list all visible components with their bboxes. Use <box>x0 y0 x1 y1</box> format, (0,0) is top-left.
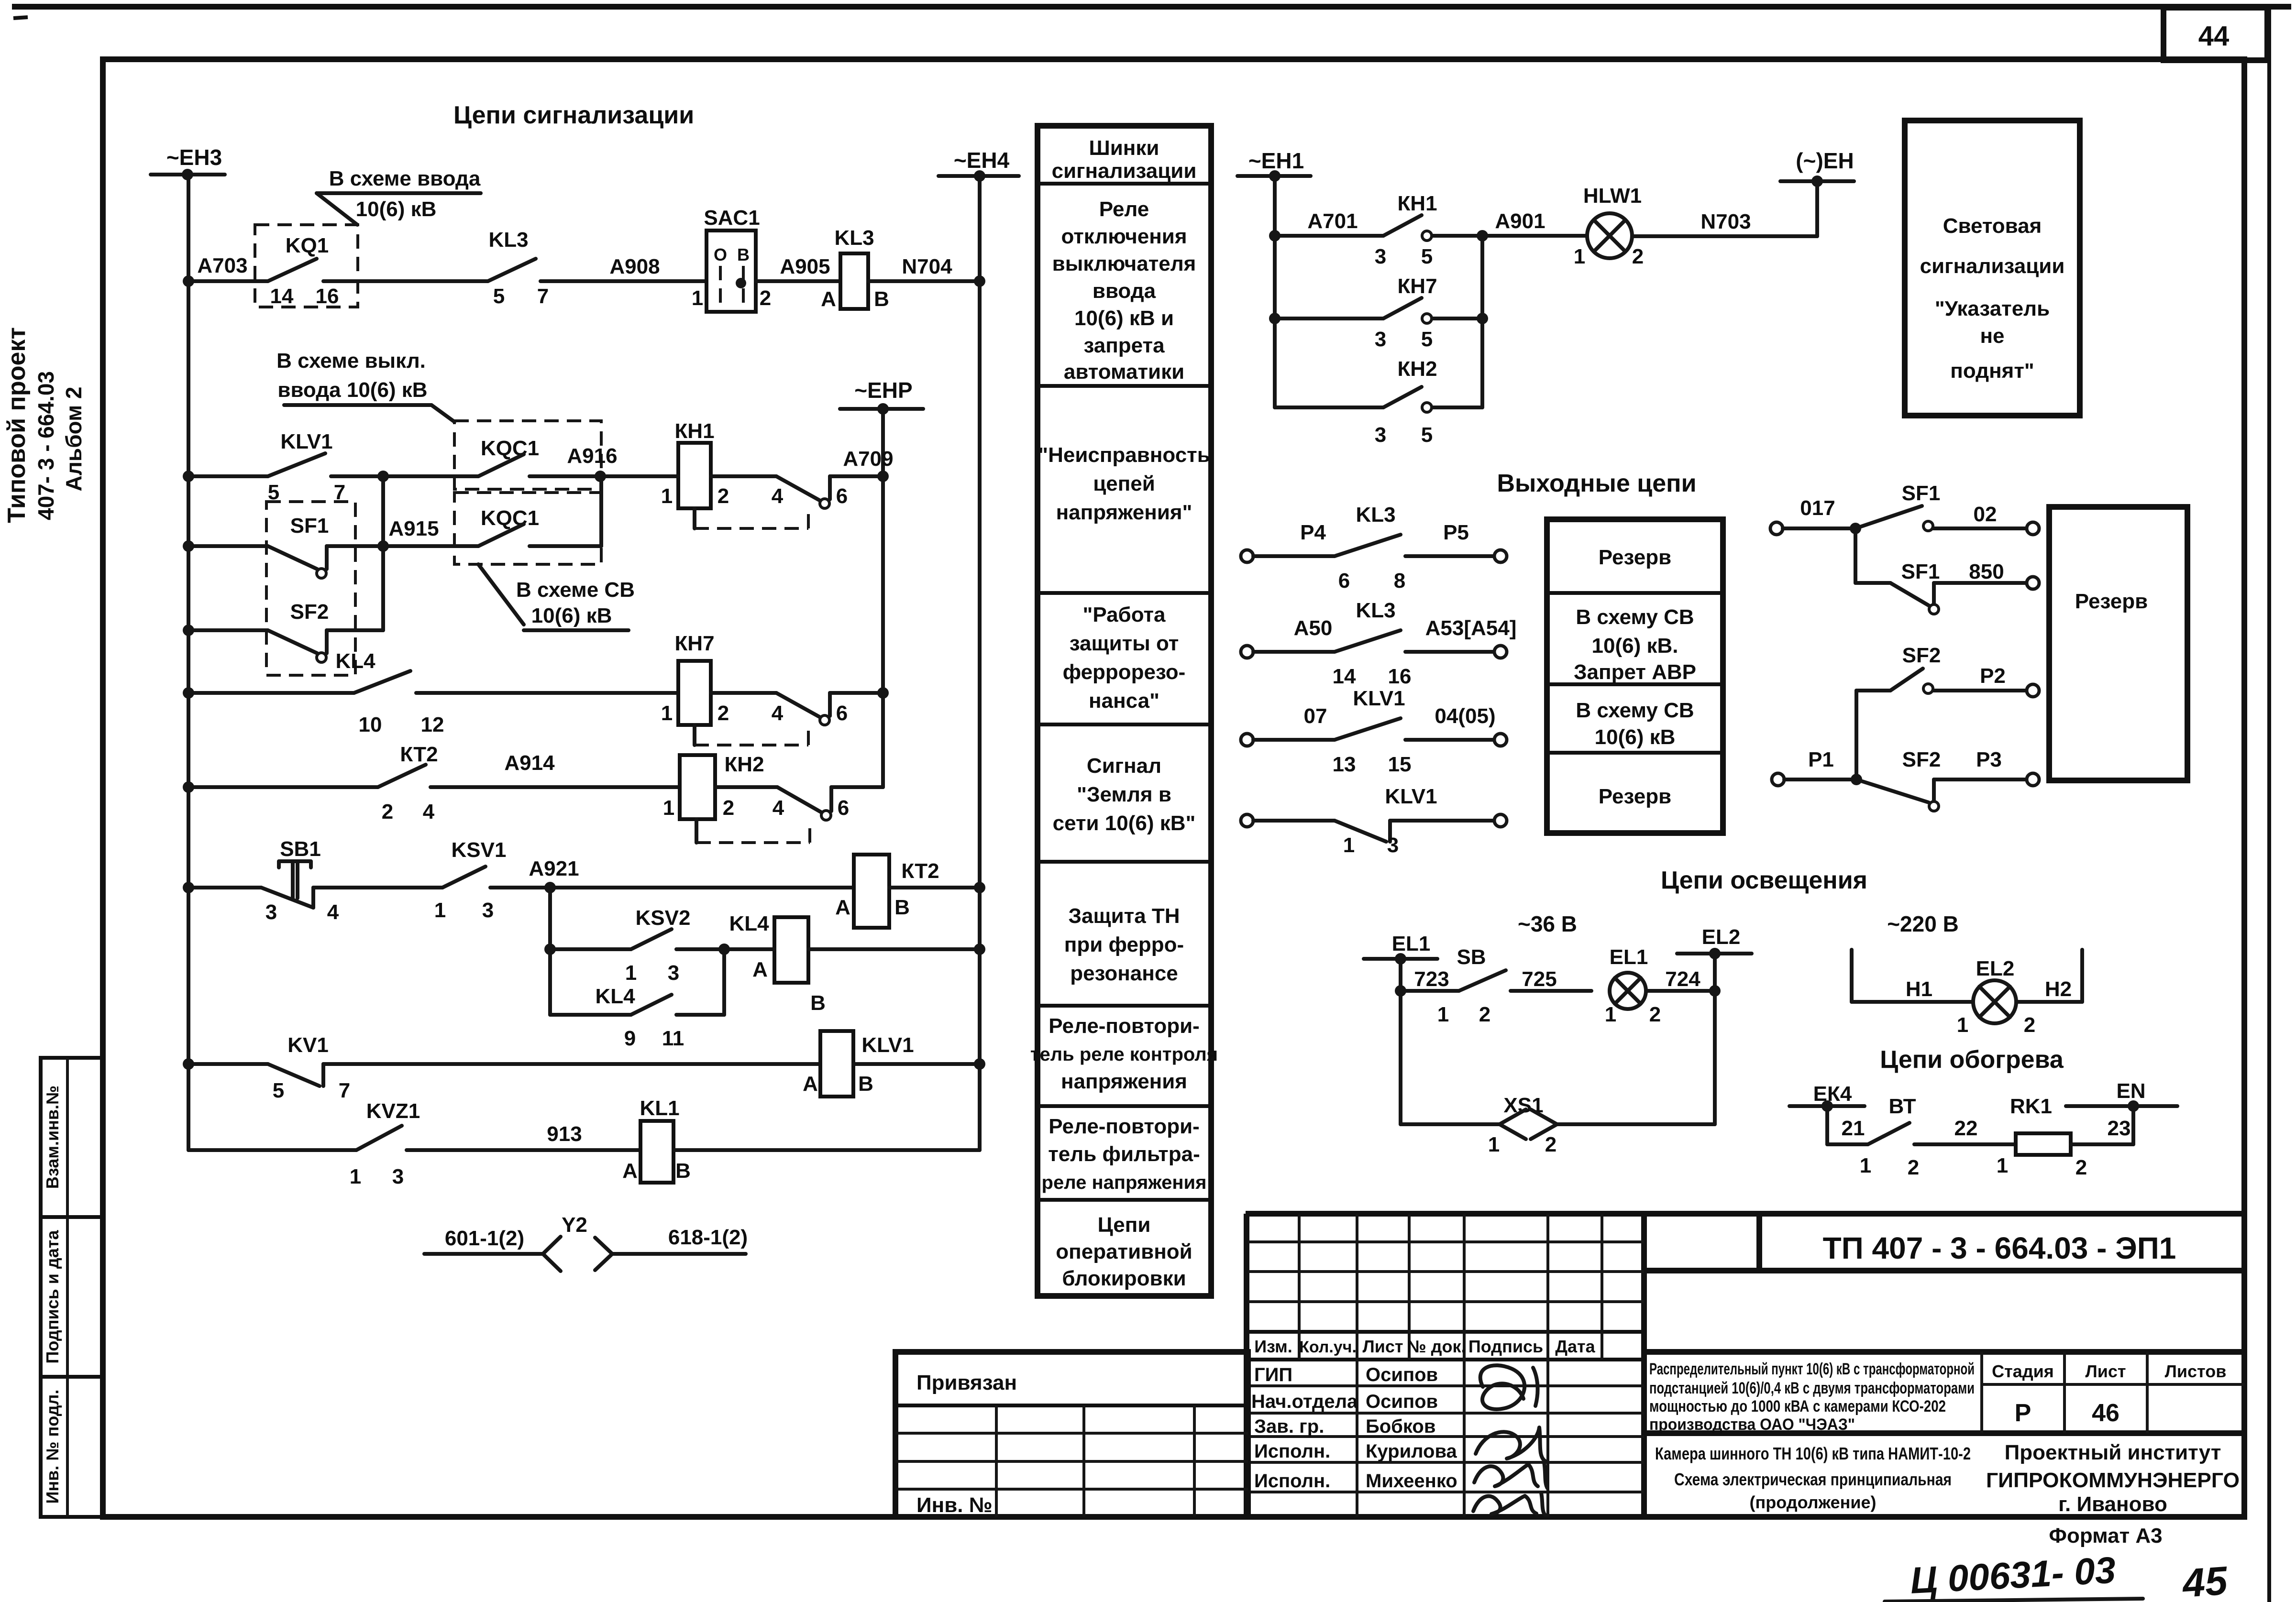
svg-text:3: 3 <box>1375 328 1386 351</box>
svg-text:2: 2 <box>1632 245 1644 268</box>
svg-text:8: 8 <box>1394 569 1405 593</box>
contact KH7 (4-6) <box>695 693 883 745</box>
node EK4 <box>1789 1082 1865 1144</box>
node ~EH1 <box>1237 148 1311 182</box>
svg-text:ввода 10(6) кВ: ввода 10(6) кВ <box>277 378 427 402</box>
svg-text:10(6) кВ: 10(6) кВ <box>1595 725 1676 749</box>
contact KSV1 (1-3) <box>434 838 550 922</box>
pushbutton SB1 (3-4) <box>261 837 339 924</box>
margin box Podpis i data <box>41 1217 103 1377</box>
cell V skhemu SV Zapret AVR <box>1574 605 1696 684</box>
relay coil KT2 <box>835 855 980 928</box>
relay coil KL1 <box>622 1097 980 1183</box>
svg-text:подстанцией 10(6)/0,4 кВ с дву: подстанцией 10(6)/0,4 кВ с двумя трансфо… <box>1649 1379 1975 1397</box>
output destination table <box>1547 519 1723 833</box>
svg-text:10: 10 <box>359 713 382 736</box>
stadia list listov header <box>1982 1352 2244 1433</box>
wire 725 <box>1522 967 1556 991</box>
svg-text:KL3: KL3 <box>1356 599 1395 622</box>
relay coil KH7 <box>661 632 776 725</box>
svg-text:(~)ЕН: (~)ЕН <box>1796 148 1854 173</box>
svg-text:Стадия: Стадия <box>1992 1361 2054 1381</box>
contact KSV2 (1-3) <box>550 906 730 985</box>
wire A921 vertical <box>544 888 556 1015</box>
svg-text:Н1: Н1 <box>1906 977 1932 1001</box>
svg-text:2: 2 <box>1908 1156 1919 1179</box>
svg-text:А914: А914 <box>504 751 555 775</box>
wire row SB1 left <box>188 886 261 889</box>
svg-text:46: 46 <box>2092 1399 2119 1427</box>
svg-text:KSV2: KSV2 <box>636 906 691 930</box>
svg-text:Формат А3: Формат А3 <box>2049 1524 2162 1547</box>
svg-text:сигнализации: сигнализации <box>1052 159 1197 183</box>
svg-text:SF2: SF2 <box>290 600 329 624</box>
svg-text:оперативной: оперативной <box>1056 1240 1192 1263</box>
svg-text:Выходные цепи: Выходные цепи <box>1497 470 1696 497</box>
svg-text:KQ1: KQ1 <box>286 234 329 257</box>
switch SB (1-2) <box>1437 945 1591 1026</box>
svg-text:А: А <box>622 1159 638 1183</box>
svg-text:А703: А703 <box>197 254 247 277</box>
svg-text:тель фильтра-: тель фильтра- <box>1048 1142 1200 1166</box>
handwritten inventory number <box>1885 1549 2230 1602</box>
label ~36 V <box>1518 911 1577 936</box>
signature row Nach otdela Osipov <box>1251 1391 1438 1412</box>
SECTION: lighting + heating <box>1364 867 2177 1179</box>
svg-text:КТ2: КТ2 <box>400 743 438 766</box>
svg-text:ГИПРОКОММУНЭНЕРГО: ГИПРОКОММУНЭНЕРГО <box>1986 1469 2240 1492</box>
svg-text:ТП 407 - 3 - 664.03 - ЭП1: ТП 407 - 3 - 664.03 - ЭП1 <box>1823 1231 2176 1265</box>
svg-text:Типовой проект: Типовой проект <box>3 327 31 523</box>
wire 724 <box>1646 967 1721 997</box>
svg-text:Р2: Р2 <box>1980 664 2006 688</box>
wire row KVZ1 left <box>188 1148 356 1152</box>
cell V skhemu SV <box>1576 699 1694 749</box>
handwritten signature Osipov <box>1480 1365 1538 1409</box>
side caption Tipovoy proekt <box>3 327 86 523</box>
svg-text:Взам.инв.№: Взам.инв.№ <box>43 1086 62 1189</box>
svg-text:EL2: EL2 <box>1976 957 2015 980</box>
table row Rabota zashchity <box>1063 603 1186 713</box>
lamp EL1 <box>1605 945 1661 1026</box>
svg-text:Михеенко: Михеенко <box>1366 1470 1457 1492</box>
signature row Ispoln Mikheenko <box>1254 1470 1457 1492</box>
svg-text:407- 3 - 664.03: 407- 3 - 664.03 <box>33 371 58 520</box>
svg-text:2: 2 <box>1479 1003 1490 1026</box>
svg-text:мощностью до 1000 кВА с камера: мощностью до 1000 кВА с камерами КСО-202 <box>1649 1397 1946 1415</box>
svg-text:Камера шинного ТН 10(6) кВ тип: Камера шинного ТН 10(6) кВ типа НАМИТ-10… <box>1655 1444 1971 1463</box>
wire A921 to KT2 coil <box>550 886 854 889</box>
svg-text:Зав. гр.: Зав. гр. <box>1254 1416 1324 1437</box>
svg-text:4: 4 <box>773 796 784 820</box>
svg-text:Световая: Световая <box>1943 214 2042 238</box>
svg-text:Курилова: Курилова <box>1366 1441 1457 1462</box>
svg-text:KL3: KL3 <box>1356 503 1395 527</box>
table row Rele-povtoritel filtra <box>1042 1115 1207 1193</box>
contact SF1 <box>268 546 383 578</box>
svg-text:А908: А908 <box>609 255 660 278</box>
svg-text:KL1: KL1 <box>640 1097 679 1120</box>
node ~EH3 <box>151 145 225 180</box>
svg-text:КН2: КН2 <box>1397 357 1437 381</box>
svg-text:850: 850 <box>1969 560 2004 583</box>
svg-text:2: 2 <box>717 484 729 508</box>
svg-text:№ док.: № док. <box>1407 1337 1466 1356</box>
page number box 44 <box>2164 8 2267 60</box>
sheet top border <box>12 7 2291 18</box>
svg-text:10(6) кВ и: 10(6) кВ и <box>1074 307 1174 330</box>
label ~220 V <box>1887 911 1959 936</box>
svg-text:А50: А50 <box>1294 616 1333 640</box>
wire label A914 <box>504 751 555 775</box>
contact KV1 (5-7) <box>268 1033 820 1102</box>
contact KL4 (10-12) <box>335 649 678 736</box>
handwritten signature Mikheenko <box>1473 1493 1545 1515</box>
relay coil KLV1 <box>803 1031 980 1097</box>
svg-text:EN: EN <box>2116 1079 2145 1103</box>
svg-text:КН2: КН2 <box>724 753 764 776</box>
svg-text:В: В <box>894 896 910 919</box>
svg-text:Распределительный пункт 10(6): Распределительный пункт 10(6) кВ с транс… <box>1649 1360 1975 1378</box>
breaker SF2 row P3 <box>1772 748 2039 811</box>
contact KQ1 (14-16) in dashed box <box>255 225 358 308</box>
svg-text:напряжения": напряжения" <box>1056 501 1192 524</box>
svg-text:23: 23 <box>2108 1117 2131 1140</box>
svg-text:SF1: SF1 <box>1901 560 1940 583</box>
output row 2 contact KL3 (14-16) A50 A53[A54] <box>1241 599 1516 688</box>
svg-text:7: 7 <box>339 1079 350 1102</box>
svg-text:2: 2 <box>2024 1013 2035 1037</box>
signature row Ispoln Kurilova <box>1254 1441 1457 1462</box>
wire EH1 vertical <box>1269 176 1280 407</box>
svg-text:1: 1 <box>1488 1133 1500 1156</box>
svg-text:феррорезо-: феррорезо- <box>1063 660 1186 684</box>
breaker SF2 row P2 <box>1856 644 2039 779</box>
svg-text:В схеме СВ: В схеме СВ <box>516 578 635 602</box>
svg-text:Бобков: Бобков <box>1366 1416 1435 1437</box>
svg-text:12: 12 <box>421 713 444 736</box>
signal bus description table <box>1038 126 1211 1296</box>
svg-text:16: 16 <box>316 285 339 308</box>
SECTION: left signalling circuits <box>151 101 1019 1271</box>
wire A901 to lamp <box>1482 234 1587 238</box>
svg-text:6: 6 <box>838 796 849 820</box>
output row 1 contact KL3 (6-8) P4 P5 <box>1241 503 1507 593</box>
svg-text:В схеме выкл.: В схеме выкл. <box>276 349 426 373</box>
svg-text:6: 6 <box>836 702 848 725</box>
svg-text:6: 6 <box>1338 569 1350 593</box>
svg-text:ввода: ввода <box>1093 279 1156 303</box>
svg-text:1: 1 <box>661 484 673 508</box>
svg-text:Цепи: Цепи <box>1098 1213 1151 1237</box>
svg-text:Запрет АВР: Запрет АВР <box>1574 660 1696 684</box>
svg-text:45: 45 <box>2180 1558 2230 1602</box>
signature rows grid <box>1248 1360 1644 1517</box>
svg-text:724: 724 <box>1665 967 1700 991</box>
SECTION: title block <box>895 1214 2244 1602</box>
svg-text:запрета: запрета <box>1083 334 1165 357</box>
svg-text:КН7: КН7 <box>674 632 714 655</box>
breaker contacts SF1 SF2 dashed box <box>266 502 355 675</box>
svg-text:KV1: KV1 <box>287 1033 329 1057</box>
svg-text:SAC1: SAC1 <box>704 206 760 230</box>
svg-text:SF2: SF2 <box>1902 748 1941 771</box>
svg-text:5: 5 <box>1421 328 1433 351</box>
svg-text:22: 22 <box>1954 1117 1978 1140</box>
svg-text:поднят": поднят" <box>1950 359 2034 383</box>
table row Cepi operativnoy blokirovki <box>1056 1213 1192 1290</box>
svg-text:В: В <box>675 1159 691 1183</box>
svg-text:KL4: KL4 <box>729 912 769 935</box>
contact KLV1 (5-7) <box>268 430 383 504</box>
contact KH2 (3-5) <box>1375 357 1482 447</box>
svg-text:напряжения: напряжения <box>1061 1070 1187 1093</box>
svg-text:SB: SB <box>1457 945 1486 969</box>
svg-text:6: 6 <box>836 484 848 508</box>
svg-text:Нач.отдела: Нач.отдела <box>1251 1391 1358 1412</box>
svg-text:4: 4 <box>772 702 784 725</box>
wire 22 <box>1954 1117 1978 1140</box>
svg-text:А: А <box>835 896 850 919</box>
box Svetovaya signalizaciya <box>1905 121 2080 416</box>
svg-text:KLV1: KLV1 <box>1385 785 1437 808</box>
contact KQC1 lower in dashed box <box>383 476 601 564</box>
svg-text:Р5: Р5 <box>1443 521 1469 544</box>
svg-text:KL4: KL4 <box>595 985 635 1008</box>
svg-text:А905: А905 <box>780 255 830 278</box>
wire KH7 row <box>1275 317 1383 320</box>
output row 4 contact KLV1 (1-3) <box>1241 785 1507 857</box>
svg-text:N704: N704 <box>902 255 952 278</box>
svg-text:при ферро-: при ферро- <box>1064 933 1184 956</box>
svg-text:В: В <box>810 991 826 1015</box>
svg-text:Цепи сигнализации: Цепи сигнализации <box>453 101 694 129</box>
svg-text:Инв. № подл.: Инв. № подл. <box>43 1390 62 1504</box>
svg-text:блокировки: блокировки <box>1062 1267 1186 1290</box>
svg-text:автоматики: автоматики <box>1064 360 1184 384</box>
svg-text:А921: А921 <box>529 857 579 880</box>
relay coil KL4 <box>724 912 980 1015</box>
node EL1 <box>1364 932 1437 997</box>
svg-text:KL3: KL3 <box>834 226 874 250</box>
contact SF2 <box>268 630 383 662</box>
svg-text:Р4: Р4 <box>1300 521 1326 544</box>
node label A703 <box>197 254 247 277</box>
svg-text:1: 1 <box>1343 834 1355 857</box>
contact KL3 (5-7) <box>488 228 549 308</box>
svg-text:Подпись: Подпись <box>1468 1337 1543 1356</box>
contact KH1 (3-5) <box>1375 192 1482 268</box>
document number box TP 407-3-664.03-EP1 <box>1759 1214 2176 1271</box>
note V skheme vvoda 10(6) kV <box>317 167 481 225</box>
svg-text:EL2: EL2 <box>1702 925 1741 949</box>
svg-text:В схему СВ: В схему СВ <box>1576 699 1694 722</box>
svg-text:04(05): 04(05) <box>1435 704 1495 728</box>
svg-text:В: В <box>737 245 750 264</box>
note V skheme vykl vvoda 10(6) kV <box>276 349 454 422</box>
svg-text:~36 В: ~36 В <box>1518 911 1577 936</box>
svg-text:КН1: КН1 <box>674 419 714 443</box>
node A901 <box>1477 209 1545 407</box>
node ~EHP <box>840 378 923 415</box>
svg-text:Y2: Y2 <box>562 1213 587 1237</box>
svg-text:КН7: КН7 <box>1397 274 1437 298</box>
contact BT (1-2) <box>1827 1095 2016 1179</box>
wire EHP vertical bus <box>877 409 889 787</box>
svg-text:601-1(2): 601-1(2) <box>445 1227 524 1250</box>
svg-text:А: А <box>821 287 836 311</box>
node label A915 <box>388 517 439 540</box>
svg-text:Реле-повтори-: Реле-повтори- <box>1049 1014 1200 1038</box>
wire EH4 vertical bus <box>978 176 982 1150</box>
wire 23 <box>2071 1106 2133 1144</box>
contact KQC1 upper in dashed box <box>383 421 601 489</box>
svg-text:13: 13 <box>1333 753 1356 776</box>
title Cepi obogreva <box>1880 1046 2064 1074</box>
SECTION: right top lamp circuit <box>1237 121 2080 447</box>
svg-text:В: В <box>858 1072 873 1096</box>
contact KVZ1 (1-3) <box>350 1099 640 1188</box>
svg-text:реле напряжения: реле напряжения <box>1042 1172 1207 1193</box>
cell Rezerv 2 <box>1599 785 1671 808</box>
contact KL4 (9-11) <box>550 949 724 1050</box>
title block outline <box>1246 1214 2244 1517</box>
node EL2 <box>1677 925 1752 991</box>
svg-text:"Работа: "Работа <box>1082 603 1166 626</box>
svg-text:Изм.: Изм. <box>1254 1337 1292 1356</box>
svg-text:А: А <box>752 958 768 981</box>
svg-text:3: 3 <box>265 900 277 924</box>
wire A701 <box>1275 209 1383 236</box>
table row Neispravnost cepey napryazheniya <box>1038 443 1210 524</box>
svg-text:А916: А916 <box>567 444 617 468</box>
wire XS1 loop <box>1401 991 1715 1124</box>
project description cell <box>1649 1360 1975 1434</box>
handwritten signature Bobkov <box>1476 1427 1545 1461</box>
title Cepi osveshcheniya <box>1661 867 1867 894</box>
svg-text:А: А <box>803 1072 818 1096</box>
revision grid upper rows <box>1248 1214 1644 1360</box>
svg-text:Реле: Реле <box>1099 198 1149 221</box>
wire A908 <box>541 255 706 281</box>
svg-text:EL1: EL1 <box>1392 932 1431 955</box>
svg-text:1: 1 <box>1605 1003 1616 1026</box>
revision header row labels <box>1254 1337 1595 1356</box>
svg-text:В схеме ввода: В схеме ввода <box>329 167 481 190</box>
breaker SF1 row 850 <box>1855 528 2039 614</box>
contact KH7 (3-5) <box>1375 274 1488 351</box>
wire row A703 middle <box>358 279 488 283</box>
svg-text:ВТ: ВТ <box>1889 1095 1916 1118</box>
svg-text:KQC1: KQC1 <box>481 506 539 530</box>
svg-text:Альбом 2: Альбом 2 <box>61 386 86 491</box>
cell Rezerv 1 <box>1599 546 1671 569</box>
junction A915 bus vertical <box>377 471 389 630</box>
svg-text:725: 725 <box>1522 967 1556 991</box>
svg-text:производства ОАО "ЧЭАЗ": производства ОАО "ЧЭАЗ" <box>1649 1415 1855 1434</box>
table row Rele-povtoritel rele kontrolya <box>1030 1014 1218 1093</box>
svg-text:3: 3 <box>668 961 679 985</box>
svg-text:KLV1: KLV1 <box>861 1033 914 1057</box>
relay coil KH1 <box>600 419 776 508</box>
output row 3 contact KLV1 (13-15) 07 04(05) <box>1241 687 1507 776</box>
junction dots on left bus <box>183 275 194 1070</box>
svg-text:44: 44 <box>2198 21 2230 52</box>
node label A709 <box>843 447 893 471</box>
contact KT2 (2-4) <box>378 743 680 823</box>
svg-text:Кол.уч.: Кол.уч. <box>1299 1338 1357 1356</box>
svg-text:выключателя: выключателя <box>1052 252 1196 275</box>
svg-text:ГИП: ГИП <box>1254 1364 1292 1385</box>
svg-text:KSV1: KSV1 <box>452 838 507 862</box>
note V skheme SV 10(6) kV <box>478 564 635 630</box>
svg-text:SF2: SF2 <box>1902 644 1941 667</box>
svg-text:3: 3 <box>1375 245 1386 268</box>
contact KH1 (4-6) <box>695 476 883 528</box>
svg-text:Исполн.: Исполн. <box>1254 1441 1330 1462</box>
svg-text:Лист: Лист <box>1362 1337 1403 1356</box>
wire row KL4 left <box>188 691 354 695</box>
wire KH2 row <box>1275 406 1383 409</box>
svg-text:4: 4 <box>423 800 435 823</box>
svg-text:618-1(2): 618-1(2) <box>668 1226 748 1249</box>
svg-text:Осипов: Осипов <box>1366 1391 1438 1412</box>
sheet right border <box>2267 7 2271 1602</box>
svg-text:14: 14 <box>1333 665 1356 688</box>
connector Y2 <box>424 1213 748 1271</box>
svg-text:В: В <box>874 287 889 311</box>
svg-text:1: 1 <box>625 961 637 985</box>
table row Zashchita TN <box>1064 904 1184 985</box>
svg-text:Р3: Р3 <box>1976 748 2002 771</box>
signature row Zav gr Bobkov <box>1254 1416 1435 1437</box>
svg-text:EL1: EL1 <box>1610 945 1648 969</box>
table row Signal Zemlya <box>1053 754 1196 835</box>
svg-text:1: 1 <box>350 1165 361 1188</box>
handwritten signature Kurilova <box>1474 1462 1547 1488</box>
table row Shinki signalizacii <box>1052 136 1197 183</box>
node EN <box>2066 1079 2177 1112</box>
wire 723 <box>1401 967 1459 991</box>
svg-text:Исполн.: Исполн. <box>1254 1470 1330 1492</box>
svg-text:~ЕН4: ~ЕН4 <box>954 148 1010 173</box>
svg-text:Листов: Листов <box>2165 1361 2227 1381</box>
svg-text:KLV1: KLV1 <box>1353 687 1405 710</box>
svg-text:3: 3 <box>392 1165 404 1188</box>
svg-text:5: 5 <box>273 1079 284 1102</box>
svg-text:(продолжение): (продолжение) <box>1749 1492 1876 1512</box>
svg-text:цепей: цепей <box>1093 472 1155 495</box>
svg-text:Р: Р <box>2015 1399 2031 1427</box>
svg-text:сигнализации: сигнализации <box>1920 254 2065 278</box>
svg-text:А915: А915 <box>388 517 439 540</box>
wire row SF2 left <box>188 628 268 632</box>
svg-text:5: 5 <box>1421 423 1433 447</box>
svg-text:1: 1 <box>1997 1154 2008 1177</box>
svg-text:не: не <box>1980 324 2004 348</box>
svg-text:16: 16 <box>1388 665 1412 688</box>
svg-text:KL3: KL3 <box>488 228 528 252</box>
svg-text:Дата: Дата <box>1555 1337 1595 1356</box>
svg-text:В схему СВ: В схему СВ <box>1576 605 1694 629</box>
svg-text:А901: А901 <box>1495 209 1545 233</box>
svg-text:1: 1 <box>1957 1013 1968 1037</box>
wire left bus EH3 vertical <box>187 175 190 1150</box>
wire N704 <box>868 255 980 281</box>
svg-text:ЕК4: ЕК4 <box>1813 1082 1852 1106</box>
svg-text:9: 9 <box>624 1027 636 1050</box>
svg-text:А53[А54]: А53[А54] <box>1425 616 1517 640</box>
